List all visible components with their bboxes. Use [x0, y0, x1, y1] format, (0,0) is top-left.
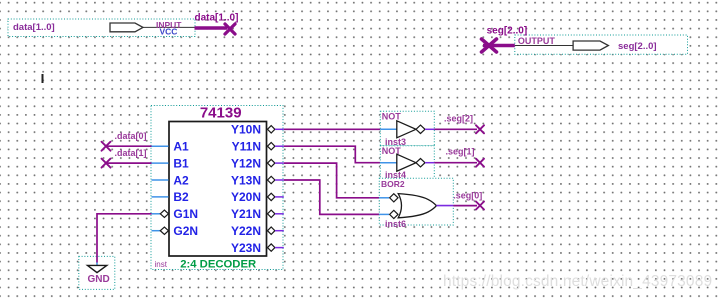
svg-text:Y23N: Y23N — [231, 241, 261, 255]
svg-text:NOT: NOT — [382, 112, 402, 122]
text cursor mark — [42, 74, 44, 83]
input pin data[1..0] — [8, 19, 195, 37]
wire bus seg[2..0] — [483, 26, 527, 46]
pin B1 — [152, 156, 190, 170]
svg-text:Y10N: Y10N — [231, 123, 261, 137]
decoder U1 label 2:4 DECODER — [180, 259, 256, 271]
svg-text:seg[2..0]: seg[2..0] — [618, 41, 657, 52]
svg-text:74139: 74139 — [200, 104, 242, 121]
svg-text:Y20N: Y20N — [231, 190, 261, 204]
svg-text:inst6: inst6 — [385, 219, 406, 229]
svg-text:Y13N: Y13N — [231, 173, 261, 187]
wire Y11N to inst4 — [284, 146, 381, 163]
svg-text:.seg[1]: .seg[1] — [446, 147, 475, 157]
wire Y12N to inst6 input 1 — [284, 163, 380, 198]
pin Y13N — [231, 173, 284, 187]
decoder U1 74139 body — [169, 122, 267, 257]
node data[1] label — [115, 148, 147, 158]
wire inst6 to seg[0] — [436, 205, 453, 207]
wire data[1] — [106, 162, 152, 164]
decoder U1 instance name inst — [155, 260, 168, 269]
or gate inst6 BOR2 — [379, 178, 453, 229]
svg-text:BOR2: BOR2 — [381, 179, 405, 189]
pin Y20N — [231, 190, 284, 204]
pin Y12N — [231, 156, 284, 170]
node X seg[2] — [476, 125, 484, 133]
wire inst3 to seg[2] — [434, 128, 477, 130]
svg-text:2:4 DECODER: 2:4 DECODER — [180, 259, 256, 271]
not gate inst3 — [380, 111, 434, 147]
svg-text:OUTPUT: OUTPUT — [518, 36, 556, 46]
node seg[1] label — [446, 147, 475, 157]
svg-text:A1: A1 — [173, 140, 189, 154]
pin A1 — [152, 140, 190, 154]
svg-text:.data[0]: .data[0] — [115, 131, 147, 141]
decoder U1 74139 selection box — [151, 106, 283, 270]
svg-text:seg[2..0]: seg[2..0] — [487, 26, 528, 37]
svg-text:Y12N: Y12N — [231, 156, 261, 170]
svg-text:.seg[2]: .seg[2] — [444, 113, 473, 123]
decoder U1 74139 title — [200, 104, 242, 121]
wire Y13N to inst6 input 2 — [284, 180, 380, 214]
svg-text:.data[1]: .data[1] — [115, 148, 147, 158]
svg-text:Y21N: Y21N — [231, 207, 261, 221]
svg-text:VCC: VCC — [160, 26, 178, 36]
ground GND — [79, 256, 115, 289]
pin A2 — [152, 173, 190, 187]
node X data[1] — [102, 159, 111, 168]
svg-text:G2N: G2N — [173, 224, 198, 238]
node X seg[1] — [476, 159, 484, 167]
svg-text:https://blog.csdn.net/weixin_4: https://blog.csdn.net/weixin_43973089 — [443, 273, 712, 290]
pin B2 — [152, 190, 190, 204]
svg-text:B1: B1 — [173, 156, 189, 170]
svg-text:B2: B2 — [173, 190, 189, 204]
not gate inst4 — [380, 146, 434, 181]
output pin seg[2..0] — [515, 35, 688, 54]
pin G1N — [152, 207, 199, 221]
pin Y10N — [231, 123, 284, 137]
pin G2N — [152, 224, 199, 238]
node seg[0] label — [453, 190, 482, 200]
pin Y21N — [231, 207, 284, 221]
svg-text:inst: inst — [155, 260, 168, 269]
node X seg[2..0] — [482, 39, 497, 52]
wire Y10N to inst3 — [284, 128, 381, 130]
svg-text:Y22N: Y22N — [231, 224, 261, 238]
node X data[1..0] — [225, 24, 235, 34]
node seg[2] label — [444, 113, 473, 123]
node X data[0] — [102, 142, 111, 151]
svg-text:Y11N: Y11N — [232, 140, 261, 154]
pin Y11N — [232, 140, 284, 154]
svg-text:GND: GND — [88, 274, 110, 285]
svg-text:G1N: G1N — [173, 207, 198, 221]
svg-text:.seg[0]: .seg[0] — [453, 190, 482, 200]
svg-text:data[1..0]: data[1..0] — [13, 22, 55, 33]
svg-text:A2: A2 — [173, 173, 189, 187]
pin Y23N — [231, 241, 284, 255]
wire G1N to GND — [97, 214, 152, 257]
wire inst4 to seg[1] — [434, 162, 477, 164]
wire bus data[1..0] — [195, 13, 239, 28]
node data[0] label — [115, 131, 147, 141]
svg-text:data[1..0]: data[1..0] — [195, 13, 239, 24]
pin Y22N — [231, 224, 284, 238]
wire data[0] — [106, 145, 152, 147]
node X seg[0] — [476, 202, 484, 210]
